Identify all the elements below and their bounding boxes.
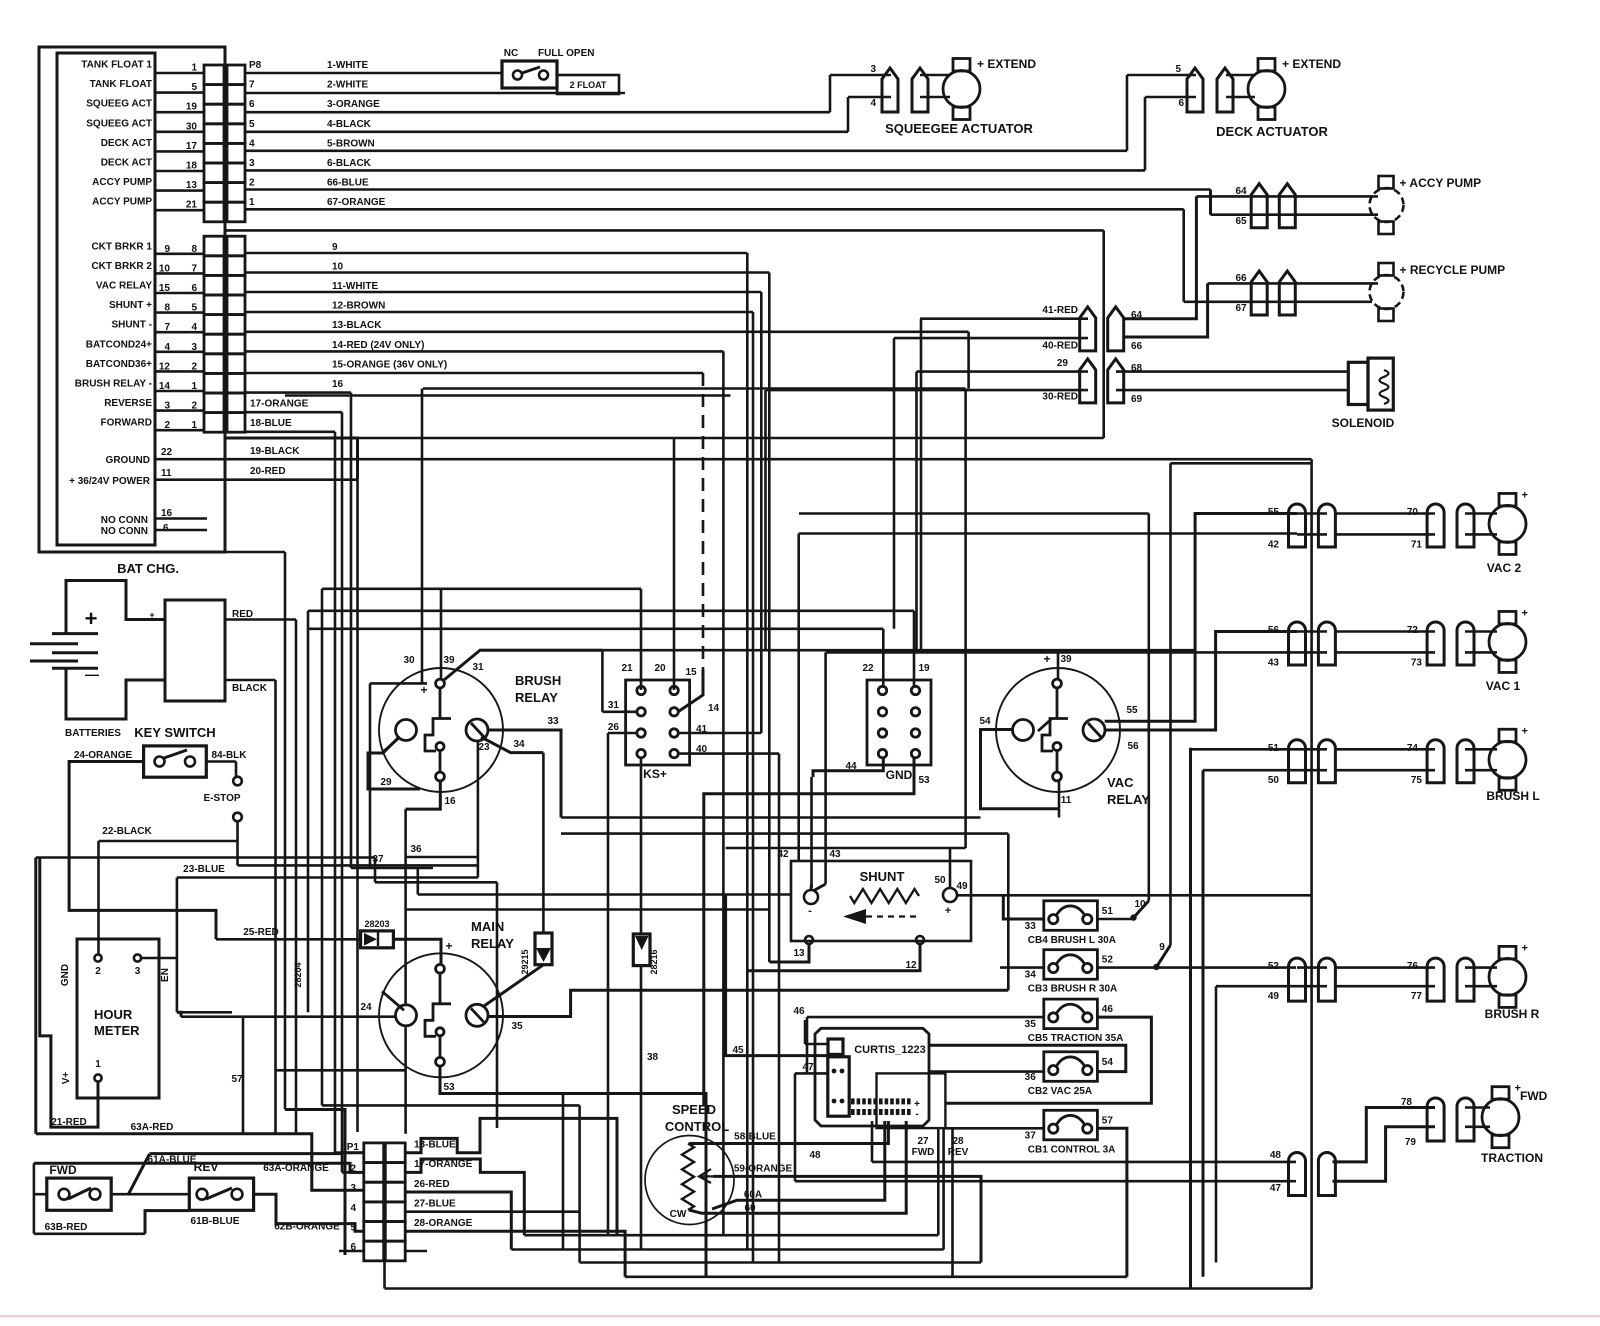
wire 28203 to relay plus bbox=[393, 939, 441, 965]
wire 49 row bbox=[1216, 985, 1297, 988]
wire 40-RED row bbox=[894, 337, 1088, 340]
wire row FORWARD bbox=[155, 429, 204, 432]
svg-text:BRUSH: BRUSH bbox=[515, 673, 561, 688]
svg-text:4-BLACK: 4-BLACK bbox=[327, 119, 372, 130]
wire 37 drop bbox=[374, 858, 377, 883]
svg-text:16: 16 bbox=[332, 379, 344, 390]
wire x1008 link bbox=[1007, 834, 1010, 968]
svg-text:43: 43 bbox=[829, 849, 841, 860]
float switch lever bbox=[522, 67, 540, 73]
diode 28216 box bbox=[633, 934, 650, 966]
svg-text:17-ORANGE: 17-ORANGE bbox=[414, 1159, 473, 1170]
svg-text:33: 33 bbox=[1025, 921, 1037, 932]
svg-text:BATTERIES: BATTERIES bbox=[65, 728, 121, 739]
wire 3-ORANGE row bbox=[245, 111, 830, 114]
motor VAC 2 bbox=[1489, 493, 1526, 554]
speed control circle bbox=[645, 1136, 734, 1225]
wire recycle row2 bbox=[1184, 300, 1372, 303]
wire 56 route bbox=[1105, 632, 1297, 731]
wire y1105 bus bbox=[322, 1104, 580, 1107]
wire 34 trunk bbox=[542, 753, 545, 933]
svg-text:43: 43 bbox=[1268, 657, 1280, 668]
wire shunt plus feed bbox=[949, 848, 952, 888]
terminal traction A bbox=[1289, 1153, 1306, 1196]
curtis pilot connector bbox=[828, 1057, 849, 1116]
hour meter box bbox=[77, 939, 159, 1098]
wire e-stop lower drop bbox=[236, 821, 239, 865]
svg-text:23: 23 bbox=[478, 742, 490, 753]
wire 42 long bbox=[799, 532, 1297, 535]
svg-text:28203: 28203 bbox=[364, 919, 389, 929]
connector block B left column bbox=[204, 236, 224, 432]
wire P1 row6 right bbox=[405, 1250, 427, 1253]
svg-text:BRUSH L: BRUSH L bbox=[1486, 789, 1539, 803]
svg-text:SOLENOID: SOLENOID bbox=[1332, 416, 1395, 430]
svg-text:76: 76 bbox=[1407, 961, 1419, 972]
svg-text:1-WHITE: 1-WHITE bbox=[327, 60, 368, 71]
wire 63A-RED route bbox=[36, 1134, 364, 1191]
wire vac2 lead1 bbox=[1465, 512, 1497, 515]
wire 30 riser brush bbox=[421, 389, 424, 684]
shunt terminal minus bbox=[804, 890, 818, 904]
FWD contact right bbox=[90, 1189, 101, 1200]
wire 22 riser bbox=[882, 629, 885, 686]
svg-text:19: 19 bbox=[918, 663, 930, 674]
wire 51 feed bbox=[1189, 748, 1192, 1289]
connector P1 left column bbox=[364, 1143, 384, 1261]
wire y909 bus bbox=[407, 908, 770, 911]
wire brushL span2 bbox=[1336, 769, 1435, 772]
wire bus bottom B bbox=[511, 1248, 943, 1251]
wire y588 bus bbox=[322, 587, 641, 590]
svg-text:9: 9 bbox=[1159, 942, 1165, 953]
terminal brushR D bbox=[1457, 958, 1474, 1001]
wire shunt V left bbox=[810, 884, 814, 890]
wire brush route box top bbox=[370, 682, 427, 685]
wire vac1 link2 bbox=[1297, 651, 1327, 654]
wire 19 riser bbox=[913, 611, 916, 686]
relay MAIN RELAY bbox=[379, 953, 503, 1077]
wire 24 feed bbox=[181, 1015, 396, 1018]
svg-text:TANK FLOAT: TANK FLOAT bbox=[90, 79, 152, 90]
svg-text:CKT BRKR 1: CKT BRKR 1 bbox=[91, 241, 152, 252]
svg-text:P8: P8 bbox=[249, 60, 262, 71]
svg-text:+: + bbox=[149, 610, 154, 620]
wire x322 drop bbox=[321, 589, 324, 1106]
svg-text:20-RED: 20-RED bbox=[250, 466, 286, 477]
float switch contact left bbox=[513, 71, 522, 80]
wire CB5 in bbox=[807, 1016, 1044, 1019]
float switch contact right bbox=[539, 71, 548, 80]
svg-text:GND: GND bbox=[60, 964, 71, 986]
svg-text:50: 50 bbox=[1268, 775, 1280, 786]
wire 53 gnd route bbox=[704, 758, 914, 1106]
svg-text:VAC 2: VAC 2 bbox=[1487, 561, 1522, 575]
svg-text:30-RED: 30-RED bbox=[1042, 392, 1078, 403]
svg-text:FWD: FWD bbox=[1520, 1089, 1548, 1103]
wire vac2 span1 bbox=[1336, 512, 1435, 515]
wire 4-BLACK row bbox=[245, 131, 848, 134]
svg-text:79: 79 bbox=[1405, 1137, 1417, 1148]
wire 17 trunk bbox=[341, 412, 344, 1172]
svg-text:6: 6 bbox=[1178, 98, 1184, 109]
wire 29 riser bbox=[915, 372, 918, 651]
terminal vac1 A bbox=[1289, 622, 1306, 665]
wire 58-BLUE bbox=[689, 1121, 888, 1144]
solenoid shell box bbox=[1348, 362, 1368, 404]
wire 41-RED row bbox=[920, 317, 1088, 320]
svg-text:VAC 1: VAC 1 bbox=[1486, 679, 1521, 693]
FWD lever bbox=[68, 1188, 91, 1199]
svg-text:NO CONN: NO CONN bbox=[101, 526, 148, 537]
wire 13 trunk bbox=[967, 332, 970, 389]
wire left trunk to 63A-RED bbox=[34, 858, 37, 1134]
wire NO CONN 2 bbox=[155, 529, 207, 532]
wire 26 trunk bbox=[607, 733, 610, 1235]
svg-text:49: 49 bbox=[1268, 991, 1280, 1002]
connector P8 left column bbox=[204, 65, 224, 222]
svg-text:DECK ACT: DECK ACT bbox=[101, 138, 152, 149]
wire 66-BLUE to accy bbox=[1209, 190, 1212, 215]
wire x643 drop bbox=[640, 589, 643, 629]
wire charger black bbox=[225, 679, 276, 682]
svg-text:39: 39 bbox=[1060, 654, 1072, 665]
motor VAC 1 bbox=[1489, 611, 1526, 672]
wire P1 row4 drop bbox=[405, 1210, 579, 1213]
circuit breaker CB3 bbox=[1044, 950, 1098, 980]
terminal deck A bbox=[1187, 68, 1203, 112]
connector P8 right column bbox=[227, 65, 245, 222]
svg-text:16: 16 bbox=[444, 796, 456, 807]
wire 15 to pin14 bbox=[678, 670, 703, 712]
curtis pin array bbox=[851, 1098, 911, 1115]
shunt box bbox=[791, 861, 971, 941]
svg-text:BATCOND36+: BATCOND36+ bbox=[86, 359, 152, 370]
wire 57 drop bbox=[242, 1017, 245, 1134]
svg-text:37: 37 bbox=[372, 854, 384, 865]
svg-text:58-BLUE: 58-BLUE bbox=[734, 1132, 776, 1143]
wire 12 trunk bbox=[752, 312, 755, 1263]
svg-text:+: + bbox=[1522, 725, 1528, 737]
svg-text:3: 3 bbox=[870, 64, 876, 75]
svg-text:30: 30 bbox=[403, 655, 415, 666]
wire 14 trunk bbox=[722, 351, 725, 1235]
svg-text:37: 37 bbox=[1025, 1130, 1037, 1141]
wire row SQUEEG ACT to P8 bbox=[155, 111, 204, 114]
wire 31 route bbox=[444, 650, 602, 680]
svg-text:12-BROWN: 12-BROWN bbox=[332, 301, 385, 312]
wire bus y857 bbox=[36, 856, 375, 859]
wire brushR link2 bbox=[1297, 985, 1327, 988]
shunt arrow bbox=[843, 909, 866, 924]
svg-text:ACCY PUMP: ACCY PUMP bbox=[92, 177, 152, 188]
svg-text:+ ACCY PUMP: + ACCY PUMP bbox=[1400, 176, 1482, 190]
wire 41red riser bbox=[920, 319, 923, 651]
diode 28203 box bbox=[361, 931, 394, 948]
svg-text:48: 48 bbox=[809, 1150, 821, 1161]
wire brushR link1 bbox=[1297, 966, 1327, 969]
svg-text:CONTROL: CONTROL bbox=[665, 1119, 729, 1134]
wire 64 route bbox=[1125, 196, 1196, 318]
wire 61A-BLUE route bbox=[150, 1151, 364, 1155]
wire brushrelay left feed bbox=[285, 394, 731, 397]
wire row VAC RELAY bbox=[155, 292, 204, 295]
wire P1 row1 route bbox=[405, 1118, 617, 1235]
wire 49 feed bbox=[1215, 986, 1218, 1262]
terminal traction C bbox=[1427, 1098, 1444, 1141]
circuit breaker CB4 bbox=[1044, 901, 1098, 931]
wire vac2 span2 bbox=[1336, 533, 1435, 536]
svg-text:METER: METER bbox=[94, 1023, 140, 1038]
svg-text:22-BLACK: 22-BLACK bbox=[102, 826, 152, 837]
svg-text:MAIN: MAIN bbox=[471, 919, 504, 934]
wire shunt V right bbox=[813, 884, 826, 891]
svg-text:+: + bbox=[945, 905, 951, 917]
wire 6-BLACK row bbox=[245, 169, 1145, 172]
wire 50 feed bbox=[1202, 770, 1205, 1277]
wire vac2 link2 bbox=[1297, 533, 1327, 536]
wire 29215 to main relay bbox=[484, 965, 544, 1006]
svg-text:11: 11 bbox=[1061, 795, 1072, 806]
wire vac39 riser bbox=[1057, 650, 1060, 678]
svg-text:FULL OPEN: FULL OPEN bbox=[538, 48, 594, 59]
wire 20-RED long bbox=[155, 478, 358, 481]
wire curtis riser b bbox=[942, 1128, 945, 1249]
svg-text:31: 31 bbox=[472, 662, 484, 673]
circuit breaker CB5 bbox=[1044, 999, 1098, 1029]
curtis mating connector outline bbox=[877, 1073, 946, 1128]
wire row SHUNT - bbox=[155, 331, 204, 334]
svg-text:28216: 28216 bbox=[649, 949, 659, 974]
svg-text:69: 69 bbox=[1131, 394, 1143, 405]
svg-text:REV: REV bbox=[948, 1147, 969, 1158]
svg-text:EN: EN bbox=[160, 968, 171, 982]
svg-text:3-ORANGE: 3-ORANGE bbox=[327, 99, 380, 110]
wire CB2 in bbox=[929, 1070, 1044, 1073]
svg-text:29: 29 bbox=[380, 777, 392, 788]
wire 31 drop bbox=[601, 650, 604, 712]
svg-text:66-BLUE: 66-BLUE bbox=[327, 178, 369, 189]
wire row CKT BRKR 1 bbox=[155, 253, 204, 256]
wire y513 bus bbox=[799, 512, 1149, 515]
svg-text:5-BROWN: 5-BROWN bbox=[327, 138, 375, 149]
svg-text:48: 48 bbox=[1270, 1150, 1282, 1161]
svg-text:33: 33 bbox=[547, 716, 559, 727]
wire 51 row bbox=[1191, 748, 1298, 751]
wire 11-WHITE row bbox=[245, 291, 761, 294]
key switch box bbox=[144, 746, 207, 777]
battery charger box BAT CHG bbox=[165, 600, 225, 701]
svg-text:SQUEEG ACT: SQUEEG ACT bbox=[86, 118, 152, 129]
shunt arrow dashed tail bbox=[866, 915, 918, 917]
wire switch blade 9 bbox=[1157, 945, 1171, 967]
svg-text:2-WHITE: 2-WHITE bbox=[327, 80, 368, 91]
hour meter pin 2 bbox=[94, 954, 101, 961]
wire 44 to shunt minus bbox=[810, 777, 813, 888]
wire brush route box left bbox=[369, 683, 372, 868]
hour meter pin 3 bbox=[134, 954, 141, 961]
CURTIS_1223 module box bbox=[815, 1028, 929, 1126]
svg-text:5: 5 bbox=[249, 119, 255, 130]
svg-text:6: 6 bbox=[249, 99, 255, 110]
wire vac2 link1 bbox=[1297, 512, 1327, 515]
terminal 41-40 A bbox=[1080, 307, 1096, 351]
svg-text:TRACTION: TRACTION bbox=[1481, 1151, 1543, 1165]
wire CB4 out bbox=[1097, 918, 1133, 921]
wire row DECK ACT to P8 bbox=[155, 150, 204, 153]
wire 3 riser top bbox=[830, 74, 891, 77]
svg-text:35: 35 bbox=[511, 1021, 523, 1032]
wire 61B-BLUE route bbox=[145, 1211, 189, 1234]
wire row BATCOND36+ bbox=[155, 370, 204, 373]
wire 48 drop bbox=[871, 1121, 874, 1162]
key switch contact left bbox=[155, 757, 165, 767]
wire 39 riser brush bbox=[440, 589, 443, 679]
svg-text:6-BLACK: 6-BLACK bbox=[327, 158, 372, 169]
terminal brushL B bbox=[1318, 740, 1335, 783]
wire 35 riser cb3 bbox=[1007, 968, 1010, 991]
wire traction lead1 bbox=[1465, 1106, 1490, 1109]
wire vac1 span1 bbox=[1336, 630, 1435, 633]
svg-text:35: 35 bbox=[1025, 1019, 1037, 1030]
wire 21-RED route bbox=[40, 858, 98, 1128]
wire 43 to shunt minus bbox=[824, 652, 827, 884]
terminal accy B bbox=[1279, 184, 1295, 228]
wire trunk x1148 bbox=[1148, 514, 1151, 901]
svg-text:SPEED: SPEED bbox=[672, 1102, 716, 1117]
svg-text:29: 29 bbox=[1057, 358, 1069, 369]
svg-text:61B-BLUE: 61B-BLUE bbox=[191, 1216, 240, 1227]
svg-text:38: 38 bbox=[647, 1052, 659, 1063]
svg-text:2 FLOAT: 2 FLOAT bbox=[570, 80, 607, 90]
svg-text:3: 3 bbox=[350, 1183, 356, 1194]
wire 42 riser bbox=[797, 534, 800, 862]
wire row DECK ACT to P8 bbox=[155, 170, 204, 173]
wire row BATCOND24+ bbox=[155, 350, 204, 353]
curtis small square bbox=[828, 1039, 843, 1054]
wire CB5 out loop bbox=[945, 1017, 1151, 1103]
svg-text:4: 4 bbox=[350, 1203, 356, 1214]
wire x579 long bbox=[578, 1105, 581, 1262]
svg-text:RELAY: RELAY bbox=[515, 690, 558, 705]
wire 23 contact drop bbox=[477, 741, 480, 878]
svg-text:24-ORANGE: 24-ORANGE bbox=[74, 750, 133, 761]
diode 28203 arrow bbox=[364, 933, 377, 946]
wire NO CONN 1 bbox=[155, 517, 207, 520]
svg-text:V+: V+ bbox=[61, 1072, 72, 1085]
wire y817 bus bbox=[561, 816, 981, 819]
wire vac1 lead2 bbox=[1465, 651, 1497, 654]
svg-text:+: + bbox=[1522, 942, 1528, 954]
svg-text:51: 51 bbox=[1102, 906, 1114, 917]
wire 13-BLACK drop end bbox=[964, 389, 967, 849]
wire curtis riser c bbox=[951, 1128, 954, 1277]
svg-text:VAC RELAY: VAC RELAY bbox=[96, 281, 152, 292]
svg-text:59-ORANGE: 59-ORANGE bbox=[734, 1164, 793, 1175]
wire 14-RED row bbox=[245, 350, 723, 353]
svg-text:10: 10 bbox=[332, 261, 344, 272]
switch REV box bbox=[189, 1178, 253, 1210]
terminal vac1 D bbox=[1457, 622, 1474, 665]
solenoid coil bbox=[1380, 370, 1389, 404]
svg-text:18-BLUE: 18-BLUE bbox=[250, 418, 292, 429]
wire right trunk bbox=[1310, 459, 1313, 1288]
wire 29 blade route bbox=[368, 738, 420, 789]
svg-text:47: 47 bbox=[1270, 1183, 1282, 1194]
connector block GND bbox=[867, 680, 931, 765]
wire vac1 link1 bbox=[1297, 630, 1327, 633]
svg-text:—: — bbox=[85, 666, 99, 682]
wire 37 bus bbox=[375, 881, 497, 884]
circuit breaker CB2 bbox=[1044, 1052, 1098, 1082]
REV lever bbox=[206, 1188, 232, 1199]
wire 3 riser bbox=[829, 75, 832, 112]
svg-text:CB5 TRACTION 35A: CB5 TRACTION 35A bbox=[1028, 1033, 1124, 1044]
svg-text:+: + bbox=[1522, 607, 1528, 619]
svg-text:3: 3 bbox=[249, 158, 255, 169]
shunt terminal plus bbox=[943, 888, 957, 902]
speed control potentiometer zigzag bbox=[682, 1144, 694, 1211]
svg-text:+ EXTEND: + EXTEND bbox=[1282, 57, 1341, 71]
wire CB3 out to 52 bbox=[1097, 966, 1296, 969]
wire 62B-ORANGE route bbox=[254, 1194, 364, 1231]
wire CB1 in bbox=[945, 1127, 1043, 1130]
wire 15 dashed trunk bbox=[702, 373, 705, 670]
svg-text:+ RECYCLE PUMP: + RECYCLE PUMP bbox=[1400, 263, 1506, 277]
terminal 64-66 B bbox=[1108, 307, 1124, 351]
svg-text:3: 3 bbox=[135, 966, 141, 977]
wire 66-BLUE row bbox=[245, 188, 1211, 191]
wire 17 to P1 bbox=[342, 1171, 364, 1174]
wire row TANK FLOAT to P8 bbox=[155, 91, 204, 94]
wire 34 route bbox=[481, 737, 543, 753]
wire row REVERSE bbox=[155, 409, 204, 412]
curtis pilot pins bbox=[832, 1069, 845, 1104]
svg-text:REVERSE: REVERSE bbox=[104, 398, 152, 409]
svg-text:6: 6 bbox=[163, 523, 169, 534]
wire 13-BLACK row bbox=[245, 330, 969, 333]
wire bus bottom E bbox=[385, 1287, 1312, 1290]
svg-text:42: 42 bbox=[1268, 539, 1280, 550]
wire 23-BLUE drop bbox=[176, 878, 179, 1013]
wire 24-ORANGE route bbox=[69, 762, 216, 940]
svg-text:14-RED (24V ONLY): 14-RED (24V ONLY) bbox=[332, 340, 424, 351]
terminal brushR A bbox=[1289, 958, 1306, 1001]
wire y894 to 16 link bbox=[416, 868, 419, 895]
wire traction lead2 bbox=[1465, 1126, 1490, 1129]
wire 59-ORANGE bbox=[713, 1176, 981, 1262]
svg-text:7: 7 bbox=[249, 80, 255, 91]
wire 10 trunk bbox=[768, 273, 771, 963]
svg-text:CURTIS_1223: CURTIS_1223 bbox=[854, 1044, 926, 1056]
wire 16 row bbox=[245, 391, 351, 394]
svg-text:-: - bbox=[915, 1109, 918, 1120]
wire left bottom trunk bbox=[33, 1163, 36, 1234]
wire row CKT BRKR 2 bbox=[155, 272, 204, 275]
wire 23-BLUE bbox=[177, 876, 478, 879]
e-stop contact lower bbox=[233, 813, 242, 822]
svg-text:57: 57 bbox=[231, 1074, 243, 1085]
svg-text:21-RED: 21-RED bbox=[51, 1117, 87, 1128]
wire brushR lead2 bbox=[1465, 985, 1497, 988]
motor SQUEEGEE ACTUATOR bbox=[943, 59, 980, 120]
svg-text:+: + bbox=[445, 939, 452, 953]
terminal brushL C bbox=[1427, 740, 1444, 783]
svg-text:70: 70 bbox=[1407, 507, 1419, 518]
wire 35 route bbox=[488, 990, 1008, 1016]
svg-text:22: 22 bbox=[161, 447, 173, 458]
terminal 29-30 A bbox=[1080, 359, 1096, 403]
